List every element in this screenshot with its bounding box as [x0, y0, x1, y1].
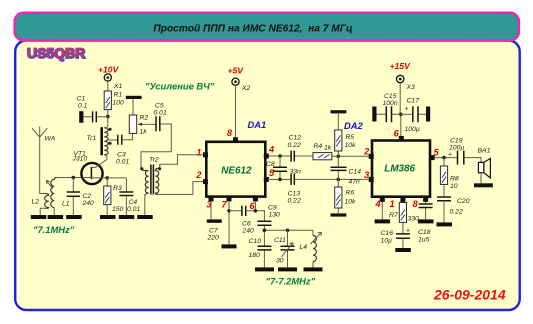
speaker BA1 [478, 148, 491, 184]
svg-text:L4: L4 [300, 244, 308, 251]
node pin7/C6 junction [227, 209, 231, 213]
capacitor C6 [229, 206, 255, 235]
ground (R3) [100, 215, 116, 219]
svg-text:C3: C3 [117, 152, 126, 159]
svg-text:WA: WA [45, 136, 56, 143]
pin 4 [264, 154, 269, 159]
transformer Tr2 [140, 157, 161, 197]
ground (L1) [48, 215, 64, 219]
node C11 junction [286, 229, 290, 233]
svg-text:100µ: 100µ [405, 126, 420, 133]
svg-text:47n: 47n [349, 179, 361, 186]
svg-text:C7: C7 [209, 228, 218, 235]
capacitor C5 [141, 103, 171, 169]
node pin4/C8 junction [278, 154, 282, 158]
svg-text:180: 180 [249, 252, 261, 259]
svg-text:"7-7.2MHz": "7-7.2MHz" [266, 276, 316, 287]
svg-text:Tr2: Tr2 [149, 157, 159, 164]
capacitor C9 [257, 205, 280, 226]
svg-text:+15V: +15V [390, 61, 412, 71]
pin 4 (DA2) [380, 197, 385, 202]
svg-text:C15: C15 [384, 93, 397, 100]
resistor R6 [335, 179, 356, 213]
pin 2 (DA2) [369, 154, 374, 159]
svg-text:8: 8 [413, 199, 419, 209]
resistor R8 [440, 158, 459, 197]
svg-text:R6: R6 [346, 190, 355, 197]
svg-text:LM386: LM386 [384, 164, 415, 175]
ground (C17 right bar) [426, 107, 430, 122]
svg-text:C19: C19 [450, 138, 463, 145]
pin 8 [233, 137, 238, 142]
ground (C2) [66, 215, 82, 219]
svg-text:L1: L1 [62, 201, 70, 208]
svg-text:0.22: 0.22 [450, 209, 463, 216]
svg-text:100n: 100n [383, 100, 398, 107]
svg-text:C13: C13 [288, 191, 301, 198]
svg-text:C8: C8 [266, 161, 275, 168]
svg-text:X2: X2 [241, 85, 251, 92]
svg-text:1: 1 [390, 199, 395, 209]
svg-text:0.1: 0.1 [78, 103, 88, 110]
ground (C16) [395, 248, 411, 252]
svg-text:Tr1: Tr1 [87, 135, 97, 142]
svg-text:C10: C10 [249, 238, 262, 245]
svg-text:4: 4 [375, 199, 381, 209]
svg-text:240: 240 [242, 228, 255, 235]
svg-text:X3: X3 [406, 84, 416, 91]
svg-text:C18: C18 [418, 229, 431, 236]
transistor VT1 J310 [72, 151, 108, 185]
pin 6 [253, 196, 258, 201]
capacitor C4 [119, 192, 140, 215]
svg-text:C20: C20 [457, 198, 470, 205]
pin 2 [203, 179, 208, 184]
node C14/R6 junction [337, 178, 341, 182]
svg-text:5: 5 [434, 148, 440, 158]
node pin5/R8/C19 junction [442, 156, 446, 160]
ground (L2) [31, 215, 47, 219]
ground (C20) [437, 222, 453, 226]
capacitor C1 [77, 96, 108, 123]
svg-text:+: + [405, 106, 409, 113]
svg-text:3: 3 [364, 170, 369, 180]
capacitor C10 [249, 238, 272, 259]
resistor R3 [104, 185, 124, 215]
svg-text:X1: X1 [113, 83, 123, 90]
svg-text:C5: C5 [155, 103, 164, 110]
ground/capacitor C7 [207, 219, 222, 241]
svg-text:5: 5 [269, 168, 275, 178]
svg-text:Простой ППП на ИМС NE612, на: Простой ППП на ИМС NE612, на 7 МГц [153, 23, 353, 34]
capacitor C20 [437, 197, 470, 222]
potentiometer R2 [129, 99, 155, 136]
wire source to R3/C4 [107, 178, 126, 192]
op-amp/IC DA2 LM386 [344, 120, 430, 197]
svg-text:1k: 1k [140, 129, 148, 136]
resistor R5 [335, 113, 356, 156]
node R4/R5/C14 junction [337, 154, 341, 158]
ground (R2 top) [126, 96, 142, 99]
main panel [15, 41, 520, 311]
terminal X3 +15V [390, 61, 416, 136]
transformer Tr1 [87, 117, 118, 160]
title bar [15, 13, 520, 41]
svg-text:C12: C12 [289, 135, 302, 142]
svg-text:L2: L2 [32, 199, 40, 206]
ground (C18) [418, 219, 434, 223]
wire Tr2 secondary top to pin1 [160, 155, 204, 167]
antenna WA [32, 127, 56, 143]
svg-text:0.01: 0.01 [127, 206, 140, 213]
svg-text:8: 8 [227, 128, 233, 138]
svg-text:+5V: +5V [228, 66, 245, 76]
svg-text:C1: C1 [77, 96, 86, 103]
svg-text:NE612: NE612 [221, 165, 252, 176]
node pin6/C6 junction [254, 209, 258, 213]
ground (pin4 DA2) [375, 219, 391, 223]
capacitor C12 [288, 135, 302, 162]
svg-text:30: 30 [276, 258, 284, 265]
svg-text:330: 330 [408, 216, 420, 223]
svg-text:150: 150 [112, 206, 124, 213]
svg-text:100: 100 [113, 100, 125, 107]
svg-text:130: 130 [269, 212, 281, 219]
ground (C4) [119, 215, 135, 219]
node A (R1/C1/Tr1) [106, 115, 110, 119]
pin 6 (DA2) [399, 136, 404, 141]
ground (L4) [304, 267, 323, 271]
capacitor C2 [67, 178, 94, 216]
node gate junction [72, 176, 76, 180]
pin 3 (DA2) [369, 177, 374, 182]
svg-text:10: 10 [450, 183, 458, 190]
terminal X2 +5V [228, 66, 251, 138]
svg-text:"7.1MHz": "7.1MHz" [33, 224, 75, 235]
svg-text:0.01: 0.01 [154, 110, 167, 117]
svg-text:C14: C14 [349, 169, 362, 176]
svg-text:C6: C6 [242, 221, 251, 228]
node X3/C15/C17 junction [399, 113, 403, 117]
pin 8 (DA2) [423, 197, 428, 202]
wire pin6 chain [255, 201, 313, 267]
capacitor C18 [418, 202, 433, 244]
svg-text:DA1: DA1 [248, 119, 267, 130]
wire pin4 row [269, 155, 313, 157]
svg-text:1: 1 [196, 148, 201, 158]
wire pin5 row [269, 178, 369, 180]
ground (R6) [331, 213, 347, 216]
resistor R4 [313, 143, 369, 160]
svg-text:1u5: 1u5 [418, 237, 430, 244]
svg-text:R8: R8 [450, 176, 459, 183]
capacitor C14 [331, 156, 362, 185]
svg-text:R5: R5 [346, 134, 355, 141]
op-amp/IC DA1 NE612 [206, 119, 266, 197]
ground (C10) [255, 267, 274, 271]
pin 5 (DA2) [430, 155, 435, 160]
inductor L4 (variable) [300, 230, 322, 267]
node C9/C10 junction [263, 229, 267, 233]
svg-text:6: 6 [394, 129, 400, 139]
resistor R1 [104, 91, 124, 117]
capacitor C16 [381, 228, 411, 249]
wire pin7 down [228, 201, 230, 244]
capacitor C11 (variable) [274, 230, 295, 267]
svg-text:26-09-2014: 26-09-2014 [433, 287, 506, 303]
svg-text:J310: J310 [72, 156, 88, 163]
svg-text:0.22: 0.22 [288, 198, 301, 205]
wire pin5 chain [435, 158, 481, 163]
svg-text:10k: 10k [345, 199, 357, 206]
wire pin4 (DA2) to ground [381, 202, 383, 220]
svg-text:240: 240 [82, 200, 95, 207]
svg-text:C17: C17 [407, 98, 420, 105]
svg-text:R2: R2 [140, 115, 149, 122]
svg-text:10k: 10k [345, 142, 357, 149]
svg-text:DA2: DA2 [344, 120, 364, 131]
svg-text:1k: 1k [324, 145, 332, 152]
svg-text:0.01: 0.01 [116, 159, 129, 166]
capacitor C8 [266, 156, 301, 179]
ground (pin7) [222, 244, 237, 248]
ground (BA1) [474, 183, 493, 187]
svg-text:US5QBR: US5QBR [26, 44, 84, 60]
svg-text:"Усиление ВЧ": "Усиление ВЧ" [145, 81, 215, 92]
wire gate line [57, 177, 83, 179]
svg-text:+10V: +10V [98, 65, 120, 75]
svg-text:C9: C9 [268, 205, 277, 212]
svg-text:C16: C16 [381, 230, 394, 237]
pin 5 [264, 177, 269, 182]
svg-text:C2: C2 [83, 193, 92, 200]
svg-text:R7: R7 [389, 212, 398, 219]
svg-text:+: + [448, 152, 452, 159]
pin 7 [227, 196, 232, 201]
svg-text:2: 2 [195, 170, 202, 180]
svg-text:2: 2 [363, 147, 370, 157]
ground (Tr2) [137, 215, 153, 219]
capacitor C13 [288, 174, 301, 205]
wire antenna down [40, 137, 46, 193]
ground (C11) [278, 267, 297, 271]
svg-text:220: 220 [207, 235, 220, 242]
pin 1 (DA2) [400, 197, 405, 202]
svg-text:+: + [406, 228, 410, 235]
svg-text:R1: R1 [114, 92, 123, 99]
svg-text:BA1: BA1 [478, 148, 491, 155]
pin 3 [209, 196, 214, 201]
US5QBR logo [26, 44, 85, 61]
node source junction [105, 176, 109, 180]
inductor L1 (variable) [46, 178, 69, 216]
node pin5/C8 junction [278, 178, 282, 182]
pin 1 [203, 152, 208, 157]
ground (R5 top) [331, 110, 347, 113]
svg-text:0.22: 0.22 [288, 142, 301, 149]
svg-text:7: 7 [222, 200, 228, 210]
svg-text:R4: R4 [314, 143, 323, 150]
svg-text:C11: C11 [274, 237, 286, 244]
capacitor C3 [116, 133, 133, 165]
inductor L2 [32, 194, 49, 216]
capacitor C19 [448, 138, 464, 165]
svg-text:100µ: 100µ [449, 145, 464, 152]
svg-text:4: 4 [268, 145, 274, 155]
wire Tr2 secondary bottom to pin2 [158, 182, 203, 195]
terminal X1 +10V [98, 65, 123, 92]
svg-text:C4: C4 [129, 199, 138, 206]
wire Tr2 primary bottom to ground [144, 196, 146, 215]
capacitor C17 [401, 98, 426, 134]
wire pin3 to ground [210, 201, 212, 219]
resistor R7 [389, 202, 419, 234]
svg-text:R3: R3 [113, 185, 122, 192]
capacitor C15 [372, 93, 401, 122]
svg-text:10µ: 10µ [381, 238, 393, 245]
